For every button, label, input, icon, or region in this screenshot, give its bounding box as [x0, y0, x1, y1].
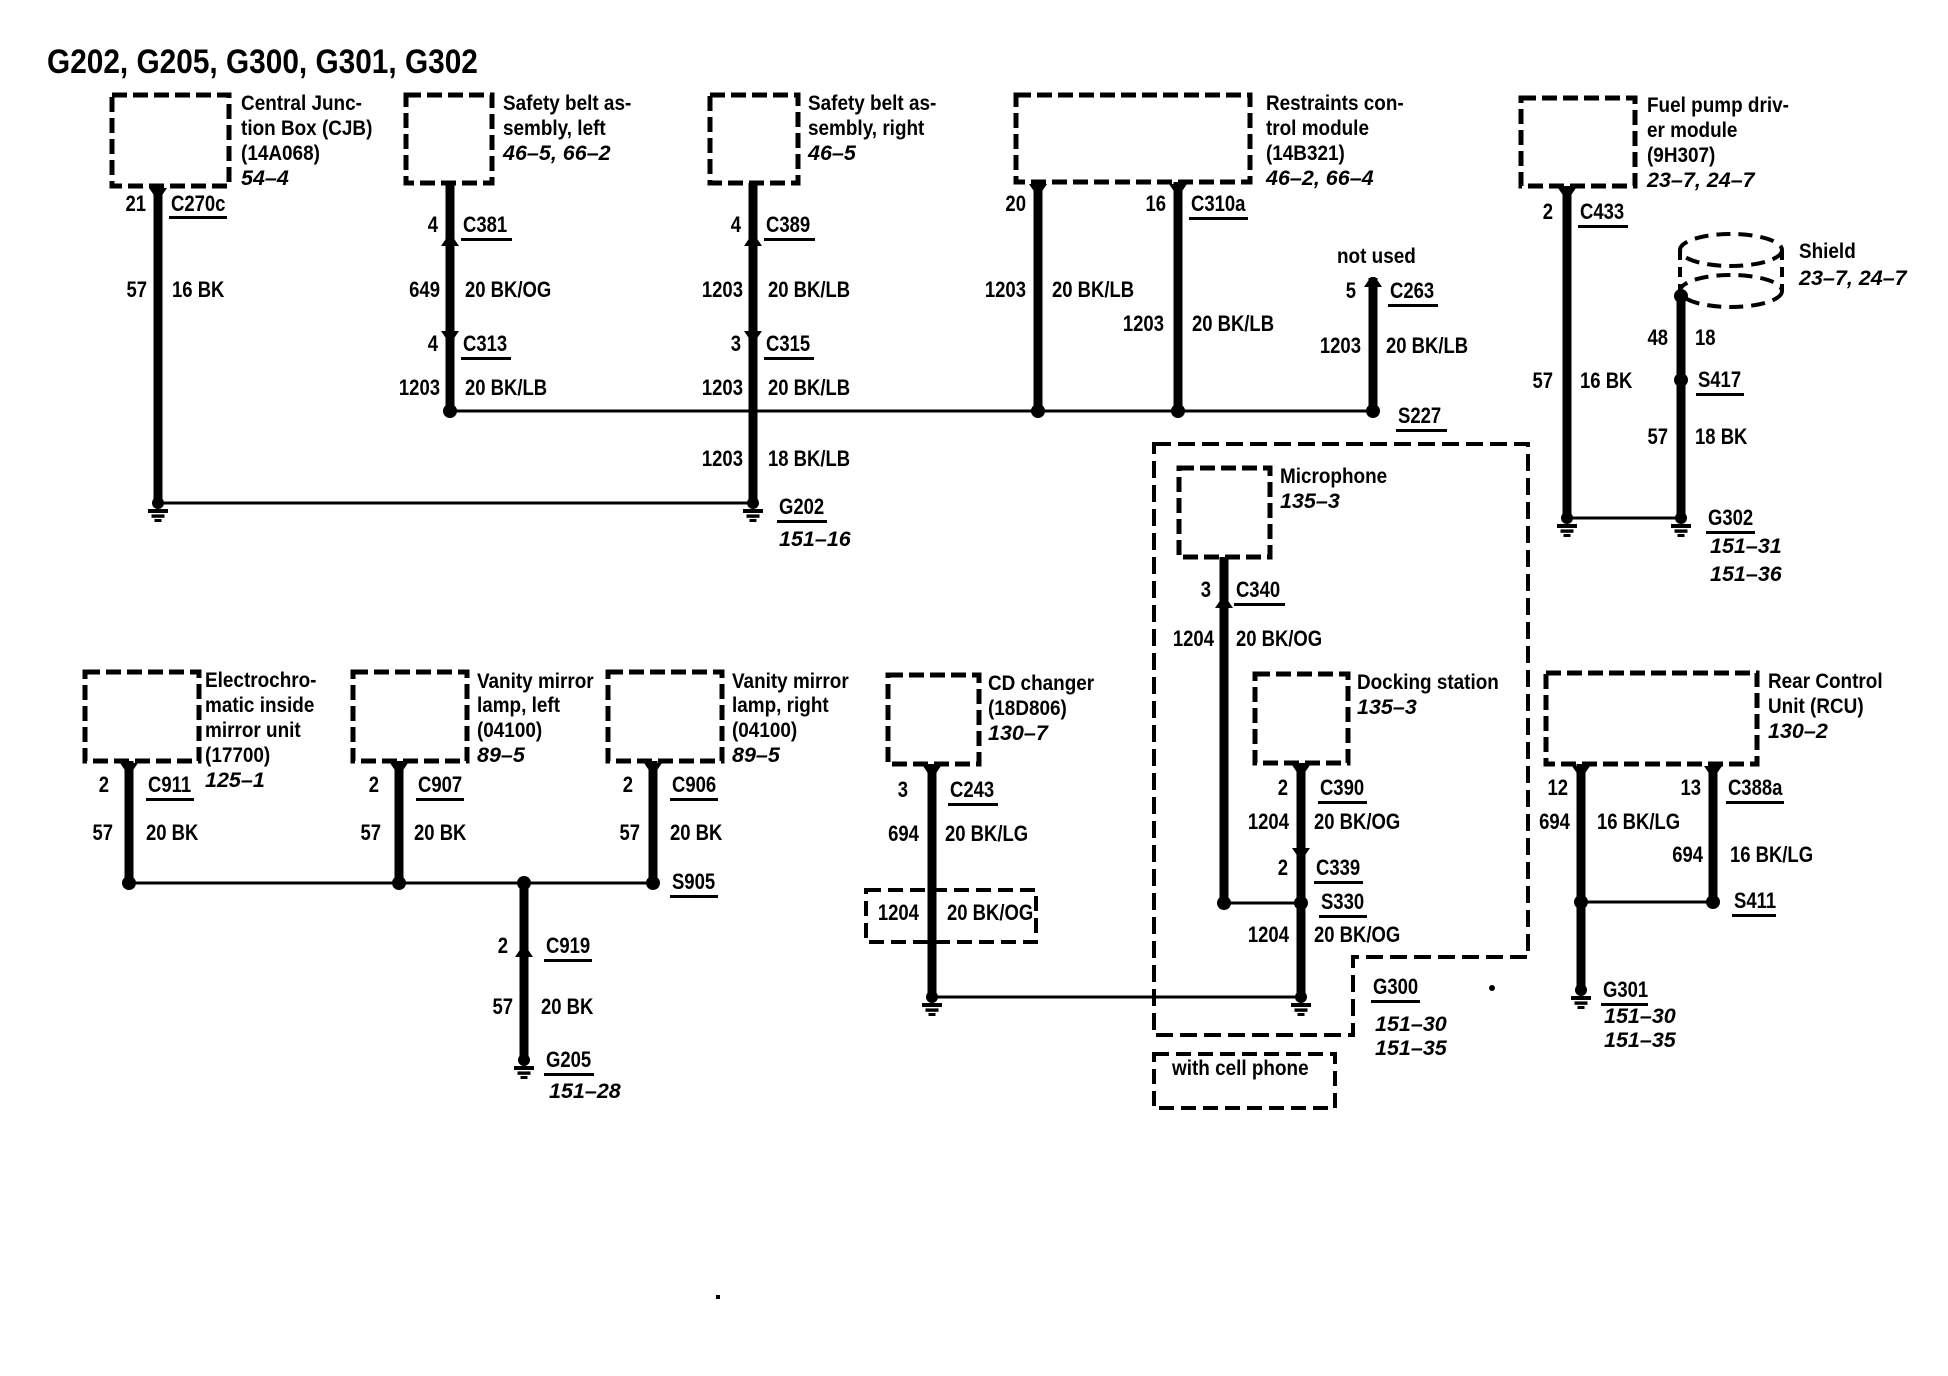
svg-text:Safety belt as-: Safety belt as-: [503, 92, 631, 115]
svg-text:16 BK/LG: 16 BK/LG: [1597, 811, 1680, 835]
svg-text:12: 12: [1547, 777, 1568, 801]
svg-text:Docking station: Docking station: [1357, 671, 1499, 694]
svg-text:57: 57: [1647, 426, 1668, 450]
svg-text:2: 2: [369, 774, 379, 798]
svg-text:(17700): (17700): [205, 744, 270, 767]
svg-text:Unit (RCU): Unit (RCU): [1768, 695, 1864, 718]
svg-text:21: 21: [125, 193, 146, 217]
svg-text:16 BK: 16 BK: [1580, 370, 1633, 394]
svg-text:135–3: 135–3: [1357, 695, 1417, 719]
svg-text:trol module: trol module: [1266, 117, 1369, 140]
svg-text:20 BK/OG: 20 BK/OG: [1314, 924, 1400, 948]
svg-text:G300: G300: [1373, 976, 1418, 1000]
svg-text:20 BK/LB: 20 BK/LB: [1192, 313, 1274, 337]
svg-text:20 BK/LB: 20 BK/LB: [1386, 335, 1468, 359]
svg-text:S411: S411: [1734, 890, 1776, 914]
svg-text:C313: C313: [463, 333, 507, 357]
svg-text:1204: 1204: [878, 902, 920, 926]
svg-text:4: 4: [428, 214, 439, 238]
svg-text:5: 5: [1346, 280, 1356, 304]
svg-text:with cell phone: with cell phone: [1171, 1057, 1309, 1080]
svg-text:18 BK: 18 BK: [1695, 426, 1748, 450]
svg-text:S417: S417: [1698, 369, 1741, 393]
svg-text:Restraints con-: Restraints con-: [1266, 92, 1404, 115]
svg-text:4: 4: [428, 333, 439, 357]
svg-text:S227: S227: [1398, 405, 1441, 429]
svg-text:20 BK: 20 BK: [670, 822, 723, 846]
svg-text:1204: 1204: [1173, 628, 1215, 652]
svg-text:1203: 1203: [702, 448, 743, 472]
svg-text:G205: G205: [546, 1049, 591, 1073]
svg-text:er module: er module: [1647, 119, 1737, 142]
svg-text:23–7, 24–7: 23–7, 24–7: [1646, 168, 1756, 192]
svg-text:135–3: 135–3: [1280, 489, 1340, 513]
svg-text:(04100): (04100): [477, 719, 542, 742]
svg-text:mirror unit: mirror unit: [205, 719, 301, 742]
svg-text:matic inside: matic inside: [205, 694, 314, 717]
svg-text:20 BK/LB: 20 BK/LB: [768, 377, 850, 401]
svg-text:C919: C919: [546, 935, 590, 959]
svg-text:151–36: 151–36: [1710, 562, 1783, 586]
svg-text:13: 13: [1680, 777, 1701, 801]
svg-text:89–5: 89–5: [732, 743, 781, 767]
svg-text:G202: G202: [779, 496, 824, 520]
svg-text:Shield: Shield: [1799, 240, 1856, 263]
svg-text:C315: C315: [766, 333, 810, 357]
svg-text:C339: C339: [1316, 857, 1360, 881]
svg-text:sembly, left: sembly, left: [503, 117, 606, 140]
svg-text:20 BK/OG: 20 BK/OG: [465, 279, 551, 303]
svg-text:Microphone: Microphone: [1280, 465, 1387, 488]
svg-text:Vanity mirror: Vanity mirror: [477, 670, 594, 693]
svg-text:20 BK/LG: 20 BK/LG: [945, 823, 1028, 847]
svg-text:57: 57: [92, 822, 113, 846]
svg-text:1203: 1203: [985, 279, 1026, 303]
svg-text:C243: C243: [950, 779, 994, 803]
svg-text:1203: 1203: [399, 377, 440, 401]
svg-text:G302: G302: [1708, 507, 1753, 531]
svg-text:tion Box (CJB): tion Box (CJB): [241, 117, 372, 140]
svg-text:3: 3: [1201, 579, 1211, 603]
svg-text:16 BK/LG: 16 BK/LG: [1730, 844, 1813, 868]
svg-text:C263: C263: [1390, 280, 1434, 304]
svg-text:1203: 1203: [702, 377, 743, 401]
svg-text:20 BK/LB: 20 BK/LB: [768, 279, 850, 303]
svg-text:3: 3: [731, 333, 741, 357]
svg-text:Safety belt as-: Safety belt as-: [808, 92, 936, 115]
svg-text:G202, G205, G300, G301, G302: G202, G205, G300, G301, G302: [47, 42, 478, 80]
svg-text:57: 57: [1532, 370, 1553, 394]
svg-text:sembly, right: sembly, right: [808, 117, 925, 140]
svg-text:20 BK: 20 BK: [541, 996, 594, 1020]
svg-text:694: 694: [1672, 844, 1703, 868]
svg-text:C911: C911: [148, 774, 191, 798]
svg-text:1203: 1203: [702, 279, 743, 303]
svg-text:151–30: 151–30: [1604, 1004, 1676, 1028]
svg-text:Vanity mirror: Vanity mirror: [732, 670, 849, 693]
svg-text:C310a: C310a: [1191, 193, 1246, 217]
svg-text:57: 57: [492, 996, 513, 1020]
svg-text:lamp, right: lamp, right: [732, 694, 829, 717]
svg-text:151–35: 151–35: [1604, 1028, 1677, 1052]
svg-text:C390: C390: [1320, 777, 1364, 801]
svg-text:151–30: 151–30: [1375, 1012, 1447, 1036]
svg-text:20 BK/LB: 20 BK/LB: [1052, 279, 1134, 303]
svg-text:125–1: 125–1: [205, 768, 265, 792]
svg-text:(14B321): (14B321): [1266, 142, 1345, 165]
svg-text:1204: 1204: [1248, 811, 1290, 835]
svg-text:20 BK/LB: 20 BK/LB: [465, 377, 547, 401]
svg-text:20 BK: 20 BK: [146, 822, 199, 846]
svg-text:Fuel pump driv-: Fuel pump driv-: [1647, 94, 1789, 117]
svg-text:46–5: 46–5: [807, 141, 857, 165]
svg-text:1203: 1203: [1320, 335, 1361, 359]
svg-text:18 BK/LB: 18 BK/LB: [768, 448, 850, 472]
svg-text:1203: 1203: [1123, 313, 1164, 337]
svg-text:CD changer: CD changer: [988, 672, 1094, 695]
svg-text:C907: C907: [418, 774, 462, 798]
svg-text:4: 4: [731, 214, 742, 238]
svg-text:20 BK/OG: 20 BK/OG: [1314, 811, 1400, 835]
svg-text:not used: not used: [1337, 245, 1416, 268]
svg-text:151–35: 151–35: [1375, 1036, 1448, 1060]
svg-text:Central Junc-: Central Junc-: [241, 92, 362, 115]
svg-text:23–7, 24–7: 23–7, 24–7: [1798, 266, 1908, 290]
svg-text:20 BK/OG: 20 BK/OG: [947, 902, 1033, 926]
svg-text:S330: S330: [1321, 891, 1364, 915]
svg-text:G301: G301: [1603, 979, 1648, 1003]
svg-text:16: 16: [1145, 193, 1166, 217]
svg-text:151–16: 151–16: [779, 527, 852, 551]
svg-text:3: 3: [898, 779, 908, 803]
svg-text:130–2: 130–2: [1768, 719, 1828, 743]
svg-text:C906: C906: [672, 774, 716, 798]
svg-text:2: 2: [99, 774, 109, 798]
svg-text:2: 2: [1543, 201, 1553, 225]
svg-text:89–5: 89–5: [477, 743, 526, 767]
svg-text:lamp, left: lamp, left: [477, 694, 560, 717]
svg-text:(14A068): (14A068): [241, 142, 320, 165]
svg-text:48: 48: [1647, 327, 1668, 351]
svg-text:57: 57: [360, 822, 381, 846]
svg-text:57: 57: [619, 822, 640, 846]
svg-text:54–4: 54–4: [241, 166, 289, 190]
svg-text:C340: C340: [1236, 579, 1280, 603]
svg-text:C381: C381: [463, 214, 507, 238]
svg-text:20: 20: [1005, 193, 1026, 217]
svg-text:46–2, 66–4: 46–2, 66–4: [1265, 166, 1374, 190]
svg-text:20 BK/OG: 20 BK/OG: [1236, 628, 1322, 652]
svg-text:46–5, 66–2: 46–5, 66–2: [502, 141, 611, 165]
svg-text:18: 18: [1695, 327, 1716, 351]
svg-text:1204: 1204: [1248, 924, 1290, 948]
svg-text:C270c: C270c: [171, 193, 225, 217]
svg-text:151–31: 151–31: [1710, 534, 1782, 558]
svg-text:2: 2: [623, 774, 633, 798]
svg-text:649: 649: [409, 279, 440, 303]
svg-text:57: 57: [126, 279, 147, 303]
svg-text:C433: C433: [1580, 201, 1624, 225]
svg-text:20 BK: 20 BK: [414, 822, 467, 846]
svg-text:Rear Control: Rear Control: [1768, 670, 1883, 693]
svg-text:16 BK: 16 BK: [172, 279, 225, 303]
svg-text:694: 694: [1539, 811, 1570, 835]
svg-text:(04100): (04100): [732, 719, 797, 742]
svg-text:694: 694: [888, 823, 919, 847]
svg-text:2: 2: [1278, 857, 1288, 881]
svg-text:130–7: 130–7: [988, 721, 1049, 745]
svg-text:2: 2: [498, 935, 508, 959]
svg-text:C389: C389: [766, 214, 810, 238]
svg-text:151–28: 151–28: [549, 1079, 621, 1103]
svg-text:2: 2: [1278, 777, 1288, 801]
svg-text:(9H307): (9H307): [1647, 144, 1715, 167]
svg-text:Electrochro-: Electrochro-: [205, 669, 316, 692]
svg-text:S905: S905: [672, 871, 715, 895]
svg-text:C388a: C388a: [1728, 777, 1783, 801]
svg-text:(18D806): (18D806): [988, 697, 1067, 720]
